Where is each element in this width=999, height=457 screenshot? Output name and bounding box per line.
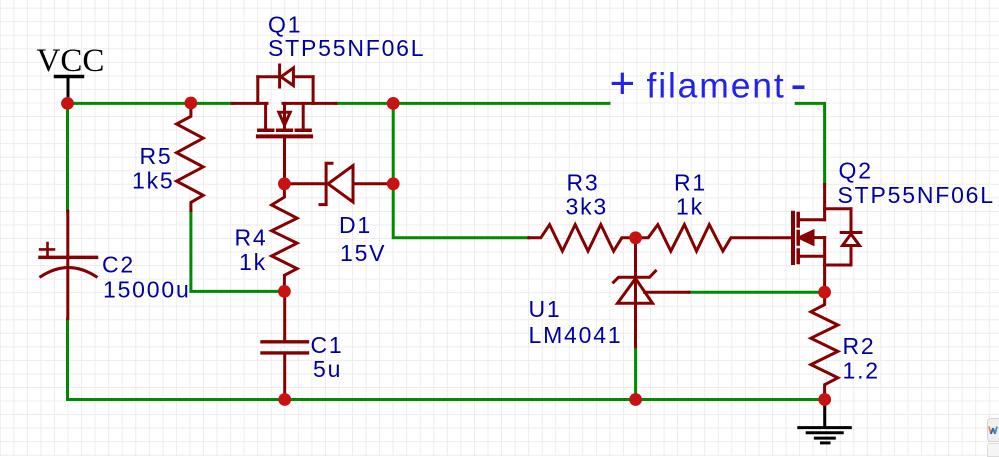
- wire: R5 bottom to R4 bottom node: [191, 210, 285, 291]
- wire: U1 tap to Q2 source: [689, 291, 825, 294]
- junction node Q1 gate / D1 / R4: [278, 177, 291, 190]
- svg-text:1.2: 1.2: [843, 358, 880, 384]
- junction node R4/C1/R5: [278, 285, 291, 298]
- wire: U1 bottom to ground rail: [634, 347, 637, 400]
- svg-text:VCC: VCC: [37, 43, 105, 79]
- junction node R3/R1/U1: [629, 231, 642, 244]
- svg-text:R2: R2: [843, 333, 876, 359]
- wire: node A down and across to R3: [393, 103, 529, 237]
- svg-text:C2: C2: [102, 252, 135, 278]
- junction node R2/ground: [818, 393, 831, 406]
- junction node Q2 source: [818, 286, 831, 299]
- svg-text:R5: R5: [140, 143, 173, 169]
- svg-text:1k: 1k: [239, 249, 267, 275]
- svg-text:R4: R4: [235, 225, 268, 251]
- svg-text:15000u: 15000u: [103, 277, 191, 303]
- wire: VCC column down to C2: [66, 103, 69, 211]
- svg-text:D1: D1: [339, 212, 372, 238]
- svg-text:3k3: 3k3: [566, 194, 608, 220]
- wire: filament - down to Q2 drain: [796, 103, 824, 184]
- svg-text:U1: U1: [529, 296, 562, 322]
- svg-text:15V: 15V: [340, 240, 386, 266]
- svg-text:LM4041: LM4041: [529, 322, 623, 348]
- wire: C2 bottom column: [66, 319, 69, 400]
- UI widget bottom-right: [987, 418, 999, 442]
- junction node VCC/top rail: [61, 97, 74, 110]
- junction node C1 bottom: [278, 393, 291, 406]
- svg-text:Q1: Q1: [268, 12, 302, 38]
- power port VCC: [37, 43, 105, 101]
- shunt reference U1 (zener symbol): [614, 241, 690, 347]
- svg-text:R3: R3: [567, 169, 600, 195]
- ground symbol: [799, 400, 851, 443]
- resistor R2: [811, 292, 838, 399]
- svg-text:1k: 1k: [676, 194, 704, 220]
- zener diode D1: [284, 163, 393, 204]
- wire: ground rail bottom: [68, 398, 825, 401]
- junction node A (Q1 drain): [387, 97, 400, 110]
- svg-text:+: +: [610, 59, 636, 108]
- wire: VCC top rail: [68, 102, 233, 105]
- svg-text:1k5: 1k5: [132, 168, 174, 194]
- svg-text:STP55NF06L: STP55NF06L: [838, 182, 995, 208]
- wire: node A to filament +: [393, 102, 609, 105]
- svg-text:Q2: Q2: [839, 158, 873, 184]
- resistor R3: [529, 225, 636, 252]
- resistor R4: [272, 184, 298, 292]
- transistor Q1 (MOSFET, body diode on top): [232, 65, 336, 184]
- junction node D1 cathode-wire: [387, 177, 400, 190]
- svg-text:C1: C1: [311, 332, 344, 358]
- wire: Q1 drain to node A: [336, 102, 393, 105]
- resistor R5: [177, 103, 204, 210]
- svg-text:R1: R1: [674, 169, 707, 195]
- resistor R1: [636, 225, 792, 252]
- svg-text:filament: filament: [647, 65, 786, 105]
- transistor Q2 (MOSFET with body diode): [793, 185, 861, 293]
- svg-text:5u: 5u: [313, 356, 342, 382]
- junction node U1 bottom: [629, 393, 642, 406]
- capacitor C1: [262, 291, 308, 399]
- capacitor C2: [40, 211, 97, 319]
- net label + filament -: [610, 59, 805, 108]
- svg-text:STP55NF06L: STP55NF06L: [268, 35, 425, 61]
- junction node R5 top: [185, 97, 198, 110]
